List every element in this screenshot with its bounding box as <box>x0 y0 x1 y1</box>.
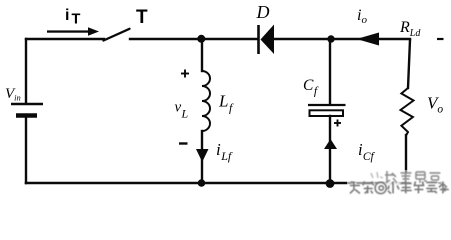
switch T (blade) <box>104 29 130 41</box>
node: bottom of inductor branch <box>198 179 206 187</box>
current arrow i_Cf <box>324 139 337 149</box>
watermark backdrop fade over wires <box>384 170 446 184</box>
wire: top rail from switch to diode anode <box>130 38 258 40</box>
wire: top rail from left corner to switch contact <box>26 38 104 40</box>
polarity - of v_L <box>179 142 188 144</box>
polarity + of v_L <box>181 70 189 78</box>
polarity - of V_o (top) <box>437 38 444 40</box>
resistor R_Ld <box>401 88 414 136</box>
source V_in (battery long plate) <box>11 103 43 106</box>
current arrow i_o <box>357 33 380 46</box>
wire: bottom rail <box>26 182 408 185</box>
node: bottom of capacitor branch <box>326 179 335 188</box>
wire: diode cathode to output node and load corner <box>274 38 410 40</box>
capacitor C_f (bottom box plate) <box>310 110 344 116</box>
wire: capacitor branch upper lead <box>329 39 331 104</box>
watermark line 1: 松哥电源 (drawn strokes, gray with white emboss) <box>371 171 443 184</box>
wire: inductor branch upper lead <box>201 39 203 71</box>
wire: inductor branch lower lead <box>201 131 203 183</box>
wire: capacitor branch lower lead <box>329 116 331 183</box>
wire: left branch above battery <box>25 39 27 104</box>
svg-text:D: D <box>256 2 270 22</box>
wire: right branch from top corner to resistor <box>408 40 410 88</box>
current arrow i_Lf <box>196 149 209 162</box>
polarity + of C_f <box>334 120 341 127</box>
wire: left branch below battery <box>25 118 27 183</box>
node: top of inductor branch <box>197 35 205 43</box>
svg-text:T: T <box>136 7 148 28</box>
capacitor C_f (top plate) <box>308 104 346 106</box>
diode D (triangle) <box>261 25 275 55</box>
source V_in (battery short thick plate) <box>16 113 37 118</box>
current arrow i_T <box>47 27 99 35</box>
watermark line 2: 头条@小李半导体 (drawn strokes, gray with white emboss) <box>350 182 450 195</box>
diode D (cathode bar) <box>257 25 260 54</box>
inductor L_f <box>202 71 210 131</box>
wire: right branch below resistor <box>405 135 407 183</box>
node: diode-capacitor junction <box>327 35 334 42</box>
